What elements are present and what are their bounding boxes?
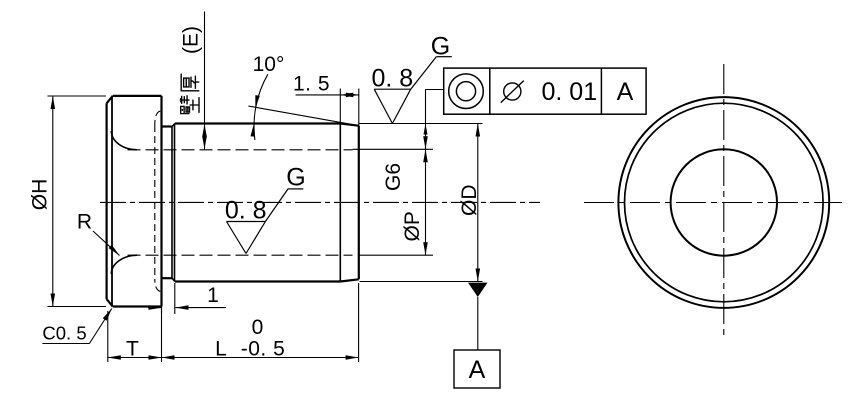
svg-text:1: 1 [207, 284, 219, 307]
svg-text:-0. 5: -0. 5 [241, 338, 286, 361]
svg-text:T: T [126, 338, 139, 361]
svg-text:1. 5: 1. 5 [293, 73, 330, 96]
svg-text:10°: 10° [253, 53, 285, 76]
svg-text:A: A [617, 78, 634, 106]
svg-text:0: 0 [252, 316, 264, 339]
svg-text:C0. 5: C0. 5 [42, 323, 86, 344]
svg-text:0. 8: 0. 8 [225, 197, 267, 225]
svg-text:G: G [286, 164, 305, 192]
svg-text:G6: G6 [382, 163, 405, 191]
svg-text:ØD: ØD [458, 185, 481, 217]
svg-text:A: A [469, 356, 486, 384]
svg-text:ØH: ØH [29, 179, 52, 211]
svg-text:0. 01: 0. 01 [542, 78, 598, 106]
svg-text:L: L [215, 338, 227, 361]
svg-text:0. 8: 0. 8 [371, 64, 413, 92]
svg-text:G: G [431, 33, 450, 61]
svg-text:(E): (E) [180, 26, 203, 54]
svg-text:R: R [77, 211, 92, 234]
svg-text:ØP: ØP [401, 211, 424, 241]
